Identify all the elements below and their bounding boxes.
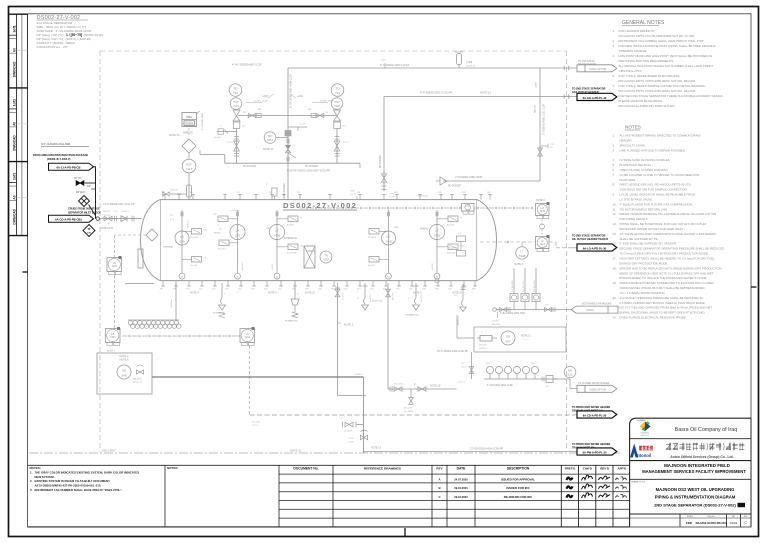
svg-text:COMPANY: COMPANY	[637, 419, 647, 422]
svg-text:NV-039: NV-039	[479, 345, 487, 347]
svg-text:TO < 1.5 BARG PRIOR DRAINING.: TO < 1.5 BARG PRIOR DRAINING.	[620, 291, 666, 295]
svg-text:¾": ¾"	[356, 291, 359, 294]
svg-text:4"-HC-DS002-4087-1CSF: 4"-HC-DS002-4087-1CSF	[232, 63, 262, 67]
svg-text:Bv-4614: Bv-4614	[449, 248, 458, 250]
svg-text:1CSN: 1CSN	[348, 441, 354, 443]
svg-text:NOTE 11: NOTE 11	[521, 335, 531, 338]
level bridle LG-7410	[388, 210, 390, 270]
svg-text:PREHEAT: PREHEAT	[163, 246, 174, 249]
svg-text:3000 mm: 3000 mm	[171, 299, 173, 308]
svg-text:4"x6"-RF-DS002-2306+2307-1CS1-: 4"x6"-RF-DS002-2306+2307-1CS1-PP	[287, 170, 330, 173]
recirculation loop	[437, 327, 566, 353]
svg-text:7.: 7.	[613, 173, 616, 177]
svg-text:¾": ¾"	[277, 291, 280, 294]
svg-text:NOTE 2: NOTE 2	[344, 324, 354, 327]
svg-text:7413: 7413	[540, 243, 546, 246]
svg-text:1COO: 1COO	[343, 142, 349, 144]
svg-text:3/4": 3/4"	[242, 126, 246, 128]
LCV cluster	[341, 418, 382, 450]
svg-text:744: 744	[233, 91, 238, 95]
svg-text:1.: 1.	[613, 134, 616, 138]
PSV-7414 relief valve	[227, 84, 268, 164]
svg-text:TO 2 barg DURING DRY FULL BYPA: TO 2 barg DURING DRY FULL BYPASS DRY PRO…	[620, 252, 709, 256]
svg-text:FOR LEGENDS REFER TO: FOR LEGENDS REFER TO	[619, 29, 656, 33]
svg-text:2": 2"	[224, 294, 226, 296]
svg-text:BA-4559: BA-4559	[133, 378, 142, 381]
svg-text:DRAIN VESSEL (DS002-45-V-007): DRAIN VESSEL (DS002-45-V-007) SHALL BE D…	[620, 286, 705, 290]
svg-text:1/2"x1/4": 1/2"x1/4"	[76, 192, 85, 194]
svg-text:2"-V-DS002-4358-1CS1-1CSF: 2"-V-DS002-4358-1CS1-1CSF	[544, 103, 546, 135]
svg-text:LG: LG	[180, 234, 185, 238]
svg-text:ntonoil: ntonoil	[637, 453, 651, 458]
svg-text:1-005: 1-005	[380, 60, 386, 62]
svg-text:4": 4"	[414, 385, 416, 387]
flag: oil outlet header (new)	[572, 234, 617, 251]
svg-text:L-001: L-001	[297, 96, 304, 98]
svg-text:1/2"x1": 1/2"x1"	[252, 425, 259, 427]
LSA switch inside vessel	[462, 204, 475, 212]
gas feed stub	[200, 154, 225, 156]
LB instrument box	[107, 258, 122, 272]
svg-text:1/4": 1/4"	[170, 215, 174, 217]
PSV inlet line	[238, 115, 336, 117]
svg-text:M: M	[276, 276, 278, 278]
svg-text:7406: 7406	[274, 234, 281, 238]
svg-text:安东石油: 安东石油	[641, 446, 655, 451]
svg-text:6"-P-DS002-2301-1CS1-PP: 6"-P-DS002-2301-1CS1-PP	[420, 91, 452, 95]
svg-text:FUNNEL/OD: FUNNEL/OD	[406, 315, 419, 317]
svg-text:PIPING SHALL BE SYMETRICAL FOR: PIPING SHALL BE SYMETRICAL FOR GAS OUTLE…	[620, 222, 708, 226]
svg-text:1.: 1.	[613, 29, 616, 33]
PSV inlet bypass	[217, 131, 237, 133]
svg-text:1016: 1016	[267, 138, 273, 142]
drain manifold	[457, 363, 566, 388]
svg-text:GENERAL NOTES: GENERAL NOTES	[622, 20, 665, 26]
svg-text:BURIAL SHUTDOWN, VALVE TO BE K: BURIAL SHUTDOWN, VALVE TO BE KEPT OPEN A…	[620, 311, 706, 315]
svg-text:7409: 7409	[540, 210, 546, 213]
svg-text:2"-P-DS002-2269-1SOP: 2"-P-DS002-2269-1SOP	[455, 176, 482, 179]
svg-text:DS003: DS003	[185, 123, 193, 126]
svg-text:DRAIN MANIFOLD/VESSEL CONNECTE: DRAIN MANIFOLD/VESSEL CONNECTED TO EXIST…	[620, 281, 714, 285]
svg-text:DESCRIPTION: DESCRIPTION	[507, 467, 530, 471]
svg-text:ALL INSTRUMENT DRAINS DIRECTED: ALL INSTRUMENT DRAINS DIRECTED TO COMMON…	[620, 134, 701, 138]
svg-text:PREF'D: PREF'D	[565, 466, 575, 470]
svg-text:1/2": 1/2"	[461, 363, 465, 365]
svg-text:APP'D: APP'D	[618, 466, 627, 470]
svg-text:Basra Oil Company of Iraq: Basra Oil Company of Iraq	[675, 427, 737, 433]
svg-text:M: M	[237, 276, 239, 278]
svg-text:7309: 7309	[389, 194, 395, 196]
svg-text:1/4": 1/4"	[325, 112, 329, 114]
svg-text:2305-00002 SHT 005 FOR SAMPLE: 2305-00002 SHT 005 FOR SAMPLE CONNECTION…	[620, 188, 688, 192]
feed inlet line to vessel	[96, 217, 99, 220]
svg-text:TO BE LOCATED CLOSE TO VESSEL: TO BE LOCATED CLOSE TO VESSEL TO AVOID N…	[620, 173, 700, 177]
svg-text:8.: 8.	[613, 183, 616, 187]
svg-text:FOR SECOND STAGE SEPARATOR THE: FOR SECOND STAGE SEPARATOR THERE IS A DO…	[619, 94, 723, 98]
svg-text:4.: 4.	[613, 54, 616, 58]
svg-text:PER PIPING ROUTING REQUIREMENT: PER PIPING ROUTING REQUIREMENTS.	[619, 59, 675, 63]
svg-text:KHARSANI: KHARSANI	[640, 432, 649, 435]
TP spec diamond	[83, 225, 95, 237]
svg-text:L1A: L1A	[213, 213, 217, 216]
svg-text:1.: 1.	[30, 470, 33, 474]
left revision strip	[9, 14, 28, 235]
svg-text:A0: A0	[13, 195, 17, 199]
svg-text:1/2": 1/2"	[292, 146, 296, 148]
svg-text:4"-D-DS002-4004-1CSF: 4"-D-DS002-4004-1CSF	[487, 384, 513, 387]
tundish funnel drain	[294, 283, 296, 299]
funnel drains under vessel right	[364, 283, 366, 298]
flag: gas outlet header (new)	[572, 87, 617, 100]
svg-text:BA-4164: BA-4164	[492, 323, 501, 326]
svg-text:REV: REV	[436, 466, 442, 470]
produced water line to flag	[364, 451, 578, 453]
svg-text:NOTE 13: NOTE 13	[458, 315, 460, 325]
svg-text:NV-001: NV-001	[74, 178, 82, 180]
svg-text:LT: LT	[275, 228, 278, 232]
svg-text:NOTE 18: NOTE 18	[430, 385, 441, 388]
svg-text:007: 007	[505, 339, 510, 343]
svg-text:NOTE 8: NOTE 8	[120, 359, 129, 362]
TI bridle rects	[457, 236, 466, 242]
LA instrument box low	[536, 237, 550, 249]
svg-text:FIRST LEGEND DRG NO. PID-AAOOO: FIRST LEGEND DRG NO. PID-AAOOO-PIPTS-05-…	[620, 183, 692, 187]
svg-text:NV-4451: NV-4451	[242, 261, 244, 270]
svg-text:NV-4302: NV-4302	[393, 291, 395, 300]
svg-text:6"-RF-DS002-4087+4358-1CSF: 6"-RF-DS002-4087+4358-1CSF	[290, 73, 293, 108]
svg-text:Bv-4308: Bv-4308	[421, 294, 423, 302]
svg-text:L-005: L-005	[466, 61, 473, 64]
svg-text:INTERFACE: INTERFACE	[284, 237, 297, 240]
svg-text:NO POCKET: NO POCKET	[448, 186, 462, 188]
svg-text:DS003: DS003	[586, 310, 594, 312]
funnel drain left	[221, 283, 223, 298]
svg-text:NOTE 6: NOTE 6	[268, 292, 277, 295]
svg-text:NO POCKET: NO POCKET	[243, 166, 257, 168]
svg-text:DRAWING TITLE: DRAWING TITLE	[631, 480, 646, 483]
svg-text:2": 2"	[357, 298, 359, 300]
svg-text:NOTE 22: NOTE 22	[305, 292, 316, 295]
svg-text:TP: TP	[88, 229, 91, 231]
future level bridles right of vessel	[513, 268, 515, 294]
svg-text:MANAGEMENT SERVICES FACILITY I: MANAGEMENT SERVICES FACILITY IMPROVEMENT	[642, 469, 746, 474]
svg-text:CHK'D: CHK'D	[583, 466, 592, 470]
svg-text:3.: 3.	[613, 148, 616, 152]
svg-text:6"-P-DS002-42071-1CS1: 6"-P-DS002-42071-1CS1	[380, 63, 410, 67]
svg-text:[CO]: [CO]	[170, 219, 175, 221]
svg-text:24.07.2020: 24.07.2020	[454, 477, 468, 481]
svg-text:7417: 7417	[186, 167, 193, 171]
svg-text:PID-AAOOO-PIPTS-OOuTR-2305-000: PID-AAOOO-PIPTS-OOuTR-2305-00001 SHT 001…	[619, 34, 696, 38]
svg-text:LA-4451: LA-4451	[187, 220, 190, 228]
svg-text:7405: 7405	[112, 265, 118, 268]
svg-text:NOTE 13/14: NOTE 13/14	[100, 227, 114, 230]
svg-text:0.5 BARG DURING WET BYPASS (SE: 0.5 BARG DURING WET BYPASS (SEE/LG) PIGG…	[620, 301, 706, 305]
svg-text:INSTRUMENT TAG NUMBER SHALL HA: INSTRUMENT TAG NUMBER SHALL HAVE PREFIX …	[619, 39, 706, 43]
svg-text:FOR NEW INSTALLATION/TIE INLET: FOR NEW INSTALLATION/TIE INLET PIPING SH…	[619, 44, 717, 48]
svg-text:10"-P-DS002-2382-1CSF-PP: 10"-P-DS002-2382-1CSF-PP	[437, 350, 468, 353]
svg-text:EXISTING SYSTEM IS REFER TO AS: EXISTING SYSTEM IS REFER TO AS-BUILT DOC…	[35, 479, 111, 483]
chinese company name	[666, 443, 671, 450]
svg-text:NOTE 10: NOTE 10	[466, 66, 476, 68]
svg-text:HIGH TRIP SETTINGS SHALL BE NE: HIGH TRIP SETTINGS SHALL BE NEEDED TO 2.…	[620, 257, 716, 261]
svg-text:NV-457: NV-457	[272, 262, 274, 270]
svg-text:NEW SYSTEM.: NEW SYSTEM.	[35, 475, 55, 479]
svg-text:2" ESD SHALL BE SUPPLIED BY VE: 2" ESD SHALL BE SUPPLIED BY VENDOR.	[620, 242, 678, 246]
riser fittings	[288, 126, 307, 128]
signal line with circles	[122, 335, 128, 337]
svg-text:M: M	[436, 276, 438, 278]
svg-text:LOCAL LEVEL INDICATOR SHALL BE: LOCAL LEVEL INDICATOR SHALL BE READABLE …	[620, 193, 696, 197]
svg-text:1COO: 1COO	[227, 142, 233, 144]
svg-text:1/4": 1/4"	[243, 112, 247, 114]
svg-text:18.: 18.	[613, 266, 617, 270]
svg-text:7404: 7404	[245, 336, 251, 339]
svg-text:TO CLOSED DRAIN HEADER: TO CLOSED DRAIN HEADER	[578, 382, 610, 385]
svg-text:1"-BL-DS002-4065-7309: 1"-BL-DS002-4065-7309	[500, 313, 525, 315]
interface level bridle LT-7406	[276, 210, 278, 270]
svg-text:1/2": 1/2"	[545, 305, 549, 307]
svg-text:DWG No.: DWG No.	[707, 516, 715, 518]
svg-text:7403: 7403	[110, 336, 116, 339]
svg-text:3.: 3.	[613, 44, 616, 48]
svg-text:H=52%: H=52%	[420, 229, 428, 231]
svg-text:1": 1"	[220, 126, 222, 128]
svg-text:1": 1"	[341, 418, 343, 420]
svg-text:Bv-4F14: Bv-4F14	[368, 237, 377, 239]
svg-text:1": 1"	[481, 332, 483, 334]
oil outlet valves	[363, 377, 365, 453]
svg-text:1(C03): 1(C03)	[104, 215, 111, 217]
svg-text:DATE: DATE	[457, 467, 467, 471]
svg-text:NOTE 6: NOTE 6	[413, 292, 422, 295]
svg-text:Bv-7F5: Bv-7F5	[368, 265, 376, 267]
sample valve on injection line	[85, 182, 96, 184]
battery limit dashed boundary	[100, 50, 567, 52]
svg-text:“HBV-DS2L-2703”.: “HBV-DS2L-2703”.	[619, 69, 643, 73]
svg-text:MAJNOON: MAJNOON	[641, 434, 650, 437]
interface level signal dashes	[480, 241, 536, 243]
svg-text:7309/1CSF: 7309/1CSF	[417, 196, 429, 198]
svg-text:SSD LIMIT: SSD LIMIT	[102, 449, 115, 453]
svg-text:¾": ¾"	[434, 291, 437, 294]
svg-text:SHALL BE SUPPLIED BY PIL.: SHALL BE SUPPLIED BY PIL.	[620, 237, 660, 241]
svg-text:NV-4203: NV-4203	[394, 384, 403, 386]
svg-text:M: M	[388, 276, 390, 278]
svg-text:7408: 7408	[519, 254, 526, 258]
svg-text:FOR MORE DETAILS.: FOR MORE DETAILS.	[620, 217, 649, 221]
svg-text:DSP: DSP	[266, 228, 271, 230]
svg-text:PLATE PACK SECTION.: PLATE PACK SECTION.	[620, 163, 652, 167]
svg-text:SPACER HAS TO BE REPLACED WITH: SPACER HAS TO BE REPLACED WITH SPADE DUR…	[620, 266, 722, 270]
NO bubble	[566, 378, 570, 380]
svg-text:PAL-CO: PAL-CO	[534, 105, 537, 113]
LA instrument box 2	[106, 329, 121, 343]
drain drop middle	[337, 283, 339, 396]
svg-text:DWG\CAD: DWG\CAD	[12, 135, 16, 151]
general notes column	[613, 20, 723, 108]
svg-text:DWG\CAD: DWG\CAD	[12, 61, 16, 77]
level bridle LG-009	[181, 210, 183, 270]
svg-text:B: B	[438, 486, 440, 490]
svg-text:NO POCKET: NO POCKET	[284, 182, 286, 196]
svg-text:LINE FLANGED WITH [X)] TO REPA: LINE FLANGED WITH [X)] TO REPAIR POSSIBL…	[620, 148, 687, 152]
svg-text:BL-4279: BL-4279	[344, 431, 353, 433]
svg-text:REV'D: REV'D	[600, 466, 609, 470]
svg-text:Anton Oilfield Services (Group: Anton Oilfield Services (Group) Co., Ltd…	[670, 455, 733, 459]
svg-text:L-002: L-002	[262, 96, 269, 98]
svg-text:NOTE 21: NOTE 21	[263, 148, 274, 151]
svg-text:Bv-4314: Bv-4314	[191, 237, 200, 239]
svg-text:LSA: LSA	[465, 205, 470, 208]
svg-text:INSULATION ext. : PP: INSULATION ext. : PP	[37, 45, 68, 49]
svg-text:NOTE 15: NOTE 15	[169, 134, 180, 137]
svg-text:23.: 23.	[613, 316, 617, 320]
svg-text:NV-007: NV-007	[171, 190, 179, 192]
svg-text:NOTE 4: NOTE 4	[190, 292, 199, 295]
svg-text:1CSF: 1CSF	[389, 197, 395, 199]
svg-text:5.: 5.	[613, 163, 616, 167]
svg-text:049: 049	[121, 373, 126, 377]
flag: closed drain drum (new)	[572, 406, 617, 418]
svg-text:2": 2"	[297, 294, 299, 296]
svg-text:5/8x4" 5: 5/8x4" 5	[122, 211, 130, 213]
svg-text:FUNNEL/OD: FUNNEL/OD	[285, 321, 298, 323]
off-page connector from injection package	[49, 163, 94, 170]
svg-text:LA: LA	[236, 228, 240, 232]
svg-text:6A-CD-A-PD-PL-30: 6A-CD-A-PD-PL-30	[583, 413, 607, 417]
interlock logic box PBA	[182, 111, 200, 127]
vessel DS002-27-V-002 (2nd stage separator)	[141, 200, 497, 281]
svg-text:TO 2ND STAGE: TO 2ND STAGE	[578, 60, 595, 63]
svg-text:3/4"-BL-4551: 3/4"-BL-4551	[523, 279, 525, 292]
svg-text:LG: LG	[386, 234, 391, 238]
level bridle LT-7411	[436, 210, 438, 270]
earth pit	[128, 320, 181, 328]
svg-text:2.: 2.	[30, 479, 33, 483]
svg-text:PIPING & INSTRUMENTATION DIAGR: PIPING & INSTRUMENTATION DIAGRAM	[655, 495, 736, 500]
svg-text:Bv-7E05: Bv-7E05	[218, 248, 227, 250]
svg-text:TDV: TDV	[486, 363, 491, 365]
svg-text:19.: 19.	[613, 281, 617, 285]
svg-text:1(C03): 1(C03)	[492, 321, 499, 323]
svg-text:1/4": 1/4"	[87, 185, 91, 188]
svg-text:BL-4297: BL-4297	[404, 408, 413, 410]
small stub near vessel	[272, 188, 277, 196]
flag: closed drain header	[577, 382, 617, 392]
svg-text:¾": ¾"	[237, 291, 240, 294]
signal line to level switches	[300, 207, 305, 209]
svg-text:A0: A0	[13, 48, 17, 52]
svg-text:DOCUMENT No.: DOCUMENT No.	[293, 467, 318, 471]
svg-text:NOTE 7?: NOTE 7?	[133, 382, 143, 384]
svg-text:VD: VD	[550, 147, 553, 149]
svg-text:17.: 17.	[613, 257, 617, 261]
svg-text:6.: 6.	[613, 168, 616, 172]
svg-text:6A-CI-A-PD-PB-CB: 6A-CI-A-PD-PB-CB	[57, 166, 81, 170]
svg-text:3.: 3.	[30, 488, 33, 492]
vortex breaker	[304, 246, 315, 268]
vessel internals	[138, 210, 464, 279]
level bridle LT-010	[237, 210, 239, 270]
svg-text:2nd STAGE OPERATING PRESSURE S: 2nd STAGE OPERATING PRESSURE SHALL BE RE…	[620, 296, 705, 300]
oil outlet run	[152, 376, 364, 378]
svg-text:7411: 7411	[434, 234, 441, 238]
flag: to 3rd stage trunk header	[544, 60, 617, 72]
svg-text:11.: 11.	[613, 207, 617, 211]
svg-text:Bv-47E04: Bv-47E04	[287, 252, 297, 254]
svg-text:210: 210	[235, 234, 240, 238]
svg-text:CRUDE FROM 2ND STAGE: CRUDE FROM 2ND STAGE	[68, 208, 100, 211]
inlet deflector	[138, 249, 143, 268]
bottom notes boxes and revision table	[28, 465, 630, 527]
temperature element TA-003	[320, 251, 332, 263]
crude feed off-page connector	[49, 215, 94, 222]
svg-text:NV-002: NV-002	[103, 211, 111, 213]
svg-text:2ND STAGE SEPARATOR (DS002-27-: 2ND STAGE SEPARATOR (DS002-27-V-002)	[654, 502, 736, 507]
svg-text:SPECIALTY AGAIN.: SPECIALTY AGAIN.	[620, 143, 646, 147]
svg-text:MODE OF OPERATION (SEE NOTE 19: MODE OF OPERATION (SEE NOTE 19.) FULL BY…	[620, 271, 714, 275]
svg-text:1/4": 1/4"	[114, 211, 118, 213]
svg-text:14" VALVE ALONG WITH COMPANION: 14" VALVE ALONG WITH COMPANION FLANGE GA…	[620, 232, 717, 236]
svg-text:NV-7E09: NV-7E09	[404, 411, 414, 413]
svg-text:3" BLND FLANGE FOR FUTURE GAS: 3" BLND FLANGE FOR FUTURE GAS COMPRESSIO…	[620, 202, 693, 206]
svg-text:FIXED FLANGE ELECTRICAL RESIST: FIXED FLANGE ELECTRICAL RESISTIVE PROBE.	[620, 316, 687, 320]
svg-text:DS002 GPT-001: DS002 GPT-001	[590, 389, 608, 391]
svg-text:7418: 7418	[334, 104, 340, 108]
svg-text:4.: 4.	[613, 158, 616, 162]
svg-text:2": 2"	[408, 298, 410, 300]
title block	[630, 418, 751, 527]
svg-text:NOTE 13: NOTE 13	[480, 91, 491, 95]
svg-text:NOTE 13: NOTE 13	[371, 447, 382, 450]
svg-text:PZT: PZT	[186, 162, 192, 166]
svg-text:AST9-DS002-MNF45-427-PK-2305-0: AST9-DS002-MNF45-427-PK-2305-00109-001_0…	[35, 484, 102, 488]
svg-text:OIL OUTLET HEADER TRAIN B: OIL OUTLET HEADER TRAIN B	[572, 238, 608, 241]
svg-text:TDV: TDV	[531, 363, 536, 365]
svg-text:NO POCKET: NO POCKET	[380, 154, 382, 168]
svg-text:NOTE 5: NOTE 5	[479, 348, 488, 350]
svg-text:SCALE: SCALE	[687, 515, 694, 518]
svg-text:SECOND STAGE SEPARATOR OPERATI: SECOND STAGE SEPARATOR OPERATING PRESSUR…	[620, 247, 725, 251]
svg-text:INSTRUMENT TAG NUMBER SHALL HA: INSTRUMENT TAG NUMBER SHALL HAVE PREFIX …	[35, 488, 123, 492]
svg-text:FROM AMELIORATION INJECTION PA: FROM AMELIORATION INJECTION PACKAGE	[33, 153, 88, 157]
svg-text:NOTES: NOTES	[625, 125, 641, 130]
svg-text:REFERENCE DRAWINGS: REFERENCE DRAWINGS	[364, 466, 401, 470]
svg-text:29.04.2022: 29.04.2022	[454, 495, 468, 499]
svg-text:1CO3: 1CO3	[461, 366, 467, 368]
svg-text:TIE IN FOR SAMPLE RETURN LINE.: TIE IN FOR SAMPLE RETURN LINE.	[620, 207, 669, 211]
svg-text:1of1: 1of1	[12, 173, 16, 180]
svg-text:6A-PW-A-PD-PL-30: 6A-PW-A-PD-PL-30	[583, 450, 607, 454]
svg-text:3/4": 3/4"	[343, 126, 347, 128]
svg-text:L-003: L-003	[536, 82, 538, 88]
junction ticks on battery limit	[563, 66, 565, 71]
svg-text:1-1/2"x1": 1-1/2"x1"	[457, 382, 466, 384]
svg-text:PSV: PSV	[334, 100, 339, 104]
svg-text:M: M	[181, 276, 183, 278]
SIS diamond	[182, 139, 196, 153]
svg-text:PID-AAOOO-PIPTS-OOPS-2305-0000: PID-AAOOO-PIPTS-OOPS-2305-00001 SHT-001,…	[619, 79, 697, 83]
svg-text:VTC: VTC	[550, 144, 555, 146]
svg-text:3/4"-BL-4552: 3/4"-BL-4552	[534, 279, 536, 292]
notes column	[613, 125, 725, 320]
svg-text:PLATFORM.: PLATFORM.	[620, 178, 637, 182]
svg-text:PID-AAOOO-PIPTS-OOPS-2305-0000: PID-AAOOO-PIPTS-OOPS-2305-00001 SHT-004,…	[619, 89, 697, 93]
svg-text:NOTES:: NOTES:	[30, 466, 41, 470]
svg-text:003: 003	[323, 258, 328, 262]
svg-text:RO: RO	[268, 134, 272, 138]
